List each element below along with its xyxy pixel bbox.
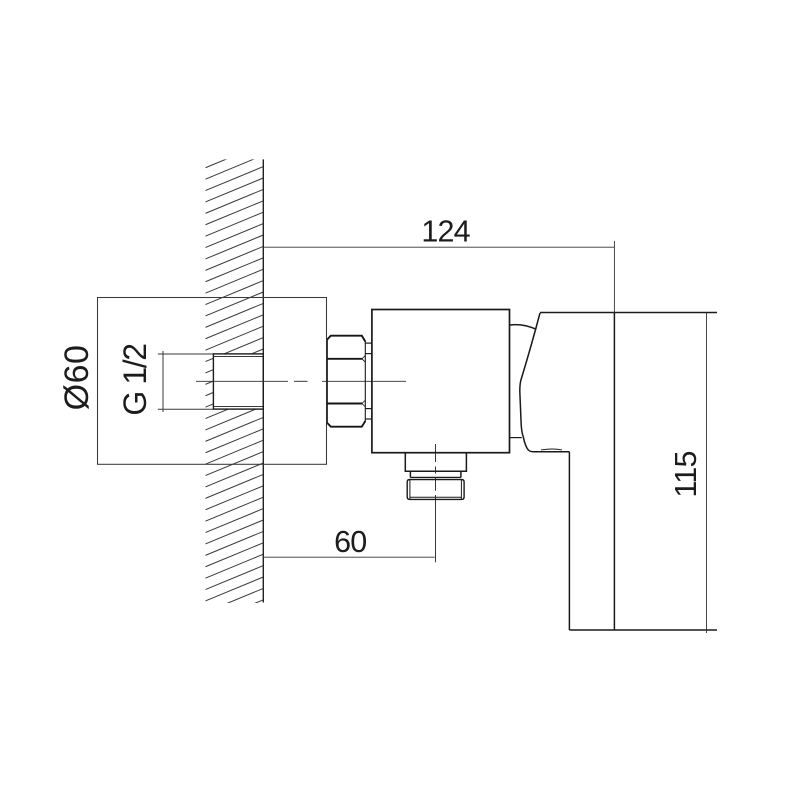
svg-text:Ø60: Ø60 (58, 345, 96, 411)
svg-text:124: 124 (421, 214, 470, 248)
svg-text:G 1/2: G 1/2 (117, 344, 153, 416)
svg-text:115: 115 (669, 451, 703, 497)
svg-text:60: 60 (334, 525, 366, 559)
